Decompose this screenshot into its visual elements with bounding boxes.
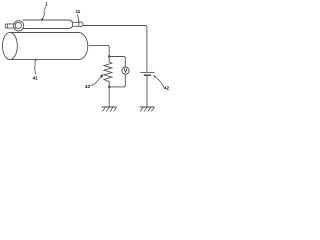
- junction node bottom: [108, 86, 110, 88]
- foot tick at end of leader 11: [77, 21, 80, 22]
- foot tick at end of leader 1: [41, 18, 43, 20]
- roller right shaft ball end: [79, 22, 83, 27]
- roller 1 left bearing inner circle: [15, 22, 21, 28]
- wire drum to top node: [89, 45, 110, 55]
- tick at top of leader 41: [34, 59, 37, 62]
- voltmeter branch top wire: [109, 57, 125, 68]
- svg-text:11: 11: [76, 9, 81, 14]
- voltmeter V circle: [122, 67, 129, 74]
- roller 1 body: [23, 20, 73, 29]
- drum 41 body: [10, 33, 88, 60]
- wire battery to right ground: [146, 76, 148, 107]
- battery 42 short plate: [144, 74, 151, 76]
- svg-text:43: 43: [85, 84, 90, 89]
- leader line for label 42: [156, 77, 164, 88]
- roller 1 left bearing outer circle: [14, 21, 24, 31]
- roller left shaft: [6, 24, 15, 28]
- svg-text:42: 42: [164, 86, 169, 91]
- leader line for label 41: [35, 60, 36, 74]
- left ground bar: [102, 106, 117, 108]
- right ground bar: [140, 106, 155, 108]
- right ground hatches: [140, 107, 154, 111]
- drum 41 left end ellipse: [2, 32, 17, 59]
- arrowhead of leader 42: [153, 75, 156, 78]
- leader line for label 43: [90, 77, 101, 85]
- leader line for label 11: [78, 14, 79, 22]
- roller left shaft end cap: [5, 24, 8, 28]
- wire bottom node to left ground: [108, 87, 110, 107]
- voltmeter branch bottom wire: [109, 74, 125, 87]
- leader line for label 1: [42, 6, 46, 19]
- resistor 43 zigzag: [104, 57, 112, 87]
- left ground hatches: [102, 107, 116, 111]
- arrowhead of leader 43: [100, 74, 104, 78]
- battery 42 long plate: [140, 71, 155, 73]
- svg-text:41: 41: [33, 75, 38, 80]
- wire roller to battery: [83, 26, 147, 72]
- svg-text:1: 1: [45, 1, 48, 6]
- roller right shaft 11: [73, 22, 79, 26]
- junction node top: [108, 55, 110, 57]
